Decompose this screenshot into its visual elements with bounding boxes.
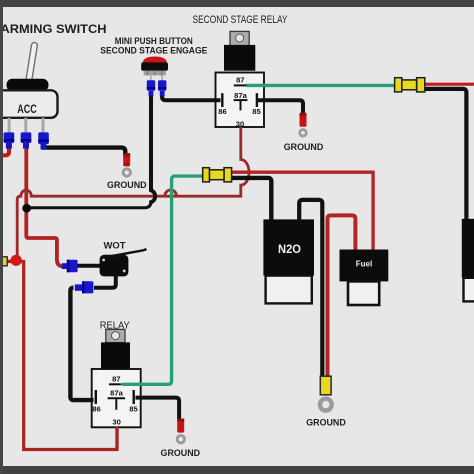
svg-text:WOT: WOT xyxy=(104,241,126,251)
wire: black from N2O solenoid right terminal up, right, down to shared ground connector xyxy=(299,200,322,377)
wire: red from bottom relay pin 30 down to bottom crimson run xyxy=(115,427,118,449)
connector: blue crimp terminal 1 xyxy=(4,132,15,148)
wire: black from push button right terminal to relay pin 86 xyxy=(162,94,221,100)
wire: black from top fuse right, right then down to stage-2 solenoid xyxy=(423,89,466,220)
push button black body xyxy=(141,62,168,70)
relay U2 schematic box xyxy=(92,369,141,427)
toggle switch base xyxy=(7,79,49,91)
wire: red from top fuse right to right edge xyxy=(425,83,474,86)
hop: red bus arcs over green vertical xyxy=(165,190,177,196)
relay U2 mounting tab xyxy=(106,329,125,342)
toggle handle xyxy=(26,42,38,83)
connector: red butt splice at ground 4 xyxy=(177,419,184,433)
switch body ACC xyxy=(0,90,58,118)
svg-text:85: 85 xyxy=(252,107,261,116)
svg-text:ACC: ACC xyxy=(17,102,37,116)
bottom border band xyxy=(0,466,474,474)
connector: red butt splice at ground 1 xyxy=(123,153,130,166)
Fuel solenoid base xyxy=(348,281,379,305)
ring terminal ground 3 xyxy=(320,399,332,411)
wire: black from middle fuse right to N2O solenoid xyxy=(230,178,272,220)
ring terminal ground 1 xyxy=(123,169,130,176)
ring terminal ground 2 xyxy=(300,130,307,137)
svg-text:85: 85 xyxy=(129,404,138,413)
svg-text:GROUND: GROUND xyxy=(306,417,346,427)
N2O solenoid body xyxy=(263,219,314,275)
N2O solenoid base xyxy=(266,276,312,304)
pin 85 bar and label xyxy=(132,390,134,404)
svg-text:SECOND STAGE ENGAGE: SECOND STAGE ENGAGE xyxy=(100,44,207,55)
svg-text:87: 87 xyxy=(112,374,120,383)
Fuel solenoid body xyxy=(340,250,389,282)
push button gray base xyxy=(144,71,166,76)
wire: black from WOT feed connector to switch body xyxy=(77,264,101,268)
node: red power junction dot xyxy=(11,255,22,266)
svg-text:Fuel: Fuel xyxy=(356,259,373,269)
wire: crimson from red power dot down, right along bottom, up to bottom relay pin 30 xyxy=(16,262,117,450)
svg-text:87: 87 xyxy=(236,75,244,84)
push button red cap xyxy=(143,57,168,65)
wire: black from WOT lower connector left then down to bottom relay pin 86 xyxy=(70,288,93,400)
wire: red from fuel solenoid left terminal up, left, down to shared ground connector xyxy=(328,215,356,377)
svg-text:86: 86 xyxy=(92,404,100,413)
wire: red stub from yellow lug to power dot xyxy=(5,260,16,263)
connector: red butt splice at ground 2 xyxy=(300,113,307,127)
svg-text:ARMING SWITCH: ARMING SWITCH xyxy=(1,22,107,36)
svg-text:86: 86 xyxy=(218,107,226,116)
pin 86 bar and label xyxy=(221,93,223,107)
wire: dark red bus from second stage relay pin 30 down, left along y196, down to red power dot xyxy=(17,127,249,256)
wire: red from ACC terminal 1 to left image edge xyxy=(0,145,9,155)
wire: red from middle fuse right along y172 and down to fuel solenoid xyxy=(231,172,374,250)
connector: blue crimp terminal 2 xyxy=(21,132,32,148)
wire: red from ACC terminal 2 down through junction to WOT feed xyxy=(26,145,66,266)
WOT switch body xyxy=(100,255,129,277)
stage-2 solenoid body (cut at right edge) xyxy=(462,219,474,278)
connector: blue crimp on WOT output (horizontal) xyxy=(75,281,94,293)
relay U1 mounting tab xyxy=(230,31,249,46)
push button pins xyxy=(150,75,152,80)
wire: green from second stage relay pin 87 to top fuse xyxy=(246,84,395,87)
wire: black from WOT switch output down then left to lower connector xyxy=(94,275,116,288)
svg-text:87a: 87a xyxy=(234,91,247,100)
wire: black from second stage relay pin 85 right and down to ground 2 xyxy=(258,100,303,114)
svg-text:SECOND STAGE RELAY: SECOND STAGE RELAY xyxy=(193,14,288,26)
connector: blue crimp on WOT feed (horizontal) xyxy=(62,260,78,273)
relay U1 schematic box xyxy=(216,73,265,128)
svg-text:30: 30 xyxy=(112,417,120,426)
svg-text:30: 30 xyxy=(236,120,244,129)
relay U1 body xyxy=(224,45,255,71)
svg-text:GROUND: GROUND xyxy=(284,142,324,152)
fuse holder F1 (middle, to solenoid feed) xyxy=(203,168,232,182)
WOT lever xyxy=(102,249,147,258)
connector: blue crimp on button left pin xyxy=(147,80,155,96)
node: black junction dot on arming wire xyxy=(22,204,31,213)
wire: black from push button left terminal down, hop over red bus, left to black junction dot xyxy=(151,95,155,202)
svg-text:87a: 87a xyxy=(110,389,123,398)
top border band xyxy=(0,0,474,7)
svg-text:GROUND: GROUND xyxy=(161,448,201,458)
svg-text:N2O: N2O xyxy=(278,242,301,256)
wire: black from ACC terminal 3 to ground ring 1 xyxy=(42,148,125,155)
connector: blue crimp on button right pin xyxy=(158,80,166,96)
connector: yellow power lug at left edge xyxy=(0,257,7,266)
switch pins xyxy=(8,118,11,133)
connector: yellow butt splice at ground 3 xyxy=(320,376,331,395)
svg-text:GROUND: GROUND xyxy=(107,180,147,190)
connector: blue crimp terminal 3 xyxy=(38,132,49,149)
fuse holder F2 (top right) xyxy=(395,78,425,92)
pin 85 bar and label xyxy=(256,93,258,107)
wire: green from bottom relay pin 87 up to middle fuse xyxy=(122,176,203,384)
relay U2 body xyxy=(101,342,130,369)
wire: black from bottom relay pin 85 right and down to ground 4 xyxy=(136,398,180,420)
left border band xyxy=(0,0,3,474)
ring terminal ground 4 xyxy=(177,436,184,443)
stage-2 solenoid base xyxy=(464,278,474,302)
pin 86 bar and label xyxy=(95,390,97,404)
